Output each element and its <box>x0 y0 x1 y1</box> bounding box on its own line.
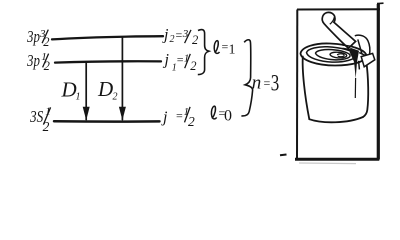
svg-text:2: 2 <box>113 92 118 103</box>
svg-text:n: n <box>252 72 261 93</box>
svg-text:3p: 3p <box>26 28 40 46</box>
svg-text:2: 2 <box>188 114 195 129</box>
svg-text:D: D <box>61 78 77 102</box>
svg-text:3p: 3p <box>26 52 40 70</box>
svg-text:3: 3 <box>182 28 189 40</box>
svg-text:j: j <box>161 109 168 126</box>
svg-text:2: 2 <box>44 59 50 73</box>
svg-text:2: 2 <box>43 35 49 49</box>
svg-text:3S: 3S <box>29 107 43 126</box>
svg-text:1: 1 <box>76 92 81 103</box>
svg-text:=: = <box>263 76 271 90</box>
svg-text:2: 2 <box>170 34 175 45</box>
svg-text:j: j <box>162 27 169 44</box>
svg-text:D: D <box>97 77 113 101</box>
svg-text:2: 2 <box>192 33 198 47</box>
svg-text:=: = <box>175 28 183 42</box>
svg-text:1: 1 <box>229 42 236 57</box>
svg-text:2: 2 <box>190 59 196 73</box>
svg-text:0: 0 <box>224 108 232 125</box>
svg-text:3: 3 <box>271 71 280 96</box>
svg-text:=: = <box>175 108 183 122</box>
svg-text:1: 1 <box>45 105 51 117</box>
svg-text:2: 2 <box>43 119 50 134</box>
svg-text:j: j <box>163 52 170 69</box>
